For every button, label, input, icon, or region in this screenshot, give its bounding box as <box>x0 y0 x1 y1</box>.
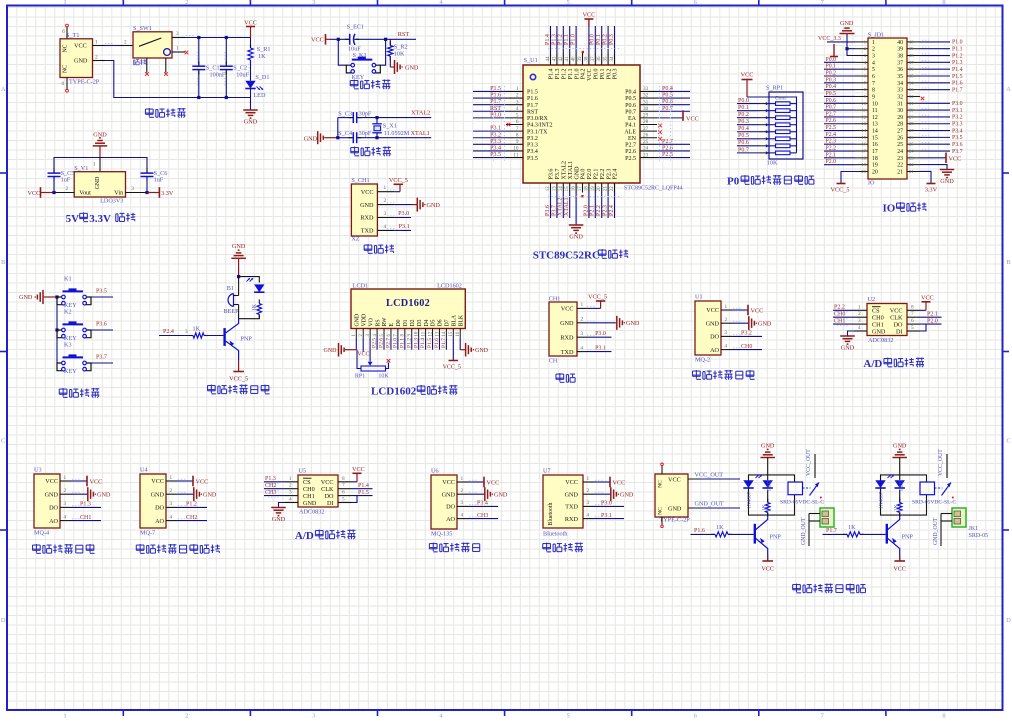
svg-text:P2.1: P2.1 <box>927 312 938 318</box>
wire relay loop <box>749 475 795 495</box>
svg-text:LCD1602: LCD1602 <box>371 386 417 398</box>
svg-text:S_EC1: S_EC1 <box>347 24 365 31</box>
svg-text:22: 22 <box>909 162 914 167</box>
svg-text:1: 1 <box>95 40 98 46</box>
svg-text:D: D <box>1006 617 1011 624</box>
svg-text:BLA: BLA <box>452 314 458 326</box>
svg-text:18: 18 <box>872 156 878 162</box>
svg-text:P2.7: P2.7 <box>826 111 837 117</box>
LDO pin 2 Vout <box>54 192 74 194</box>
svg-text:VCC_OUT: VCC_OUT <box>806 449 812 476</box>
svg-text:P3.2: P3.2 <box>741 331 752 337</box>
svg-text:VDD: VDD <box>361 314 367 327</box>
svg-text:6: 6 <box>62 29 65 35</box>
svg-text:P2.7: P2.7 <box>625 143 636 149</box>
svg-text:VCC: VCC <box>151 478 164 485</box>
switch S_SW1 <box>120 45 133 47</box>
svg-text:2: 2 <box>384 198 387 204</box>
resistor S_R2 10K <box>389 39 391 45</box>
svg-text:IO: IO <box>882 203 895 215</box>
U1 pin 39 P4.2 <box>582 53 584 65</box>
svg-text:BEEP: BEEP <box>224 308 240 315</box>
svg-text:P1.2: P1.2 <box>952 53 963 59</box>
svg-text:XTAL2: XTAL2 <box>558 197 564 216</box>
svg-text:MQ-2: MQ-2 <box>695 357 710 364</box>
svg-text:32: 32 <box>897 94 903 100</box>
svg-text:3: 3 <box>872 54 875 60</box>
svg-text:P1.7: P1.7 <box>826 528 837 534</box>
svg-text:P0.7: P0.7 <box>625 109 636 115</box>
svg-text:VCC: VCC <box>893 566 906 573</box>
svg-text:S_CH1: S_CH1 <box>351 177 369 184</box>
svg-text:GND: GND <box>626 320 640 327</box>
LED relay indicator <box>895 480 905 488</box>
svg-text:P0.2: P0.2 <box>603 34 609 45</box>
svg-text:4: 4 <box>581 345 584 351</box>
svg-text:12: 12 <box>428 331 433 336</box>
svg-text:1: 1 <box>63 0 66 6</box>
svg-text:U1: U1 <box>695 294 703 301</box>
svg-text:1K: 1K <box>252 303 258 311</box>
svg-text:P0.7: P0.7 <box>738 147 749 153</box>
ground GND U3 sideways <box>71 493 88 495</box>
U1 pin 35 P0.2 <box>607 53 609 65</box>
svg-text:3: 3 <box>587 500 590 506</box>
svg-text:TYPE-C-2P: TYPE-C-2P <box>69 79 100 86</box>
JD1 pin 9 <box>855 95 868 97</box>
svg-text:SRD-05VDC-SL-C: SRD-05VDC-SL-C <box>780 500 824 506</box>
RP1 resistor element 6 P0.5 <box>776 137 791 141</box>
svg-text:VCC_3.3: VCC_3.3 <box>818 36 841 42</box>
svg-text:GND: GND <box>97 492 111 499</box>
svg-text:P3.4: P3.4 <box>952 128 963 134</box>
svg-text:3: 3 <box>461 500 464 506</box>
svg-text:P2.7: P2.7 <box>386 338 392 348</box>
svg-text:P2.0: P2.0 <box>587 169 593 180</box>
wire U5 CH2 <box>264 488 285 490</box>
svg-text:P3.6: P3.6 <box>952 142 963 148</box>
JD1 pin 28 <box>907 123 920 125</box>
svg-text:NC: NC <box>63 65 69 73</box>
svg-text:19: 19 <box>591 186 596 192</box>
svg-text:4: 4 <box>725 343 728 349</box>
svg-text:D0: D0 <box>396 319 402 326</box>
svg-text:P2.0: P2.0 <box>583 205 589 216</box>
svg-text:VCC: VCC <box>921 294 934 301</box>
U1 pin 36 P0.1 <box>601 53 603 65</box>
svg-text:NC: NC <box>63 44 69 52</box>
svg-text:11.0592M: 11.0592M <box>384 130 410 137</box>
svg-text:P0.6: P0.6 <box>662 99 673 105</box>
svg-text:10: 10 <box>872 101 878 107</box>
RP1 resistor element 8 P0.7 <box>776 151 791 155</box>
svg-text:1: 1 <box>63 713 66 720</box>
svg-text:1K: 1K <box>193 325 201 332</box>
svg-text:4: 4 <box>289 497 292 503</box>
JD1 pin 17 <box>855 150 868 152</box>
svg-text:STC89C52RC_LQFP44: STC89C52RC_LQFP44 <box>624 186 683 192</box>
svg-text:TXD: TXD <box>361 228 374 235</box>
svg-text:GND: GND <box>427 202 441 209</box>
power VCC U4 <box>177 480 193 482</box>
svg-text:VCC: VCC <box>74 43 87 50</box>
svg-text:P3.7: P3.7 <box>952 149 963 155</box>
svg-text:35: 35 <box>604 56 609 62</box>
svg-text:P0.3: P0.3 <box>826 77 837 83</box>
svg-text:D4: D4 <box>424 319 430 326</box>
wire serial P3.1 <box>586 351 612 353</box>
svg-text:31: 31 <box>643 99 649 105</box>
wire U6 P3.4 <box>468 505 498 507</box>
svg-text:8: 8 <box>942 0 945 6</box>
svg-text:VCC: VCC <box>196 478 209 485</box>
svg-text:Bluetooth: Bluetooth <box>543 531 568 538</box>
svg-text:VCC: VCC <box>949 155 962 162</box>
svg-text:CH2: CH2 <box>265 483 276 489</box>
svg-text:6: 6 <box>872 74 875 80</box>
svg-text:P0.0: P0.0 <box>594 69 600 80</box>
svg-text:P0.5: P0.5 <box>738 133 749 139</box>
svg-text:CH1: CH1 <box>80 515 91 521</box>
U1 pin 10 P3.4 <box>506 150 523 152</box>
svg-text:VCC_5: VCC_5 <box>229 376 248 383</box>
svg-text:8: 8 <box>342 476 345 482</box>
svg-text:21: 21 <box>909 169 914 174</box>
svg-text:30: 30 <box>897 108 903 114</box>
svg-text:1: 1 <box>581 302 584 308</box>
svg-text:16: 16 <box>456 331 461 336</box>
svg-text:34: 34 <box>610 56 615 62</box>
svg-text:P2.2: P2.2 <box>826 146 837 152</box>
svg-text:P1.3: P1.3 <box>413 338 419 348</box>
JD1 pin 2 <box>855 48 868 50</box>
capacitor S_C6 1uF <box>141 172 154 174</box>
svg-text:A: A <box>1006 86 1011 93</box>
svg-text:4: 4 <box>384 224 387 230</box>
JD1 pin 37 <box>907 61 920 63</box>
svg-text:SRD-05: SRD-05 <box>969 533 989 539</box>
svg-text:VO: VO <box>368 318 374 326</box>
svg-text:33: 33 <box>897 88 903 94</box>
svg-text:1: 1 <box>587 476 590 482</box>
svg-text:CH1: CH1 <box>834 319 845 325</box>
svg-text:P1.6: P1.6 <box>490 93 501 99</box>
JD1 pin 20 <box>855 170 868 172</box>
svg-text:2: 2 <box>185 713 188 720</box>
svg-text:P2.2: P2.2 <box>600 169 606 180</box>
svg-text:7: 7 <box>342 483 345 489</box>
svg-text:P1.1: P1.1 <box>952 47 963 53</box>
svg-text:14: 14 <box>442 331 447 336</box>
svg-text:14: 14 <box>559 186 564 192</box>
diode D 1N4007 relay <box>743 480 753 488</box>
U1 pin 33 P0.4 <box>640 90 657 92</box>
svg-text:U2: U2 <box>868 296 876 303</box>
transistor PNP relay <box>754 524 756 544</box>
svg-text:SRD-05VDC-SL-C: SRD-05VDC-SL-C <box>912 500 956 506</box>
svg-text:1: 1 <box>725 304 728 310</box>
U1 pin 25 P2.7 <box>640 143 657 145</box>
svg-text:P2.4: P2.4 <box>826 132 837 138</box>
svg-text:P1.0: P1.0 <box>392 338 398 348</box>
svg-text:4: 4 <box>858 325 861 331</box>
svg-text:P2.3: P2.3 <box>606 169 612 180</box>
svg-text:KEY: KEY <box>64 368 77 375</box>
LDO pin 3 Vin <box>126 192 148 194</box>
svg-text:B: B <box>1006 259 1011 266</box>
svg-text:K2: K2 <box>64 309 72 316</box>
svg-text:MQ-135: MQ-135 <box>431 531 452 538</box>
wire U7 P3.1 <box>594 518 624 520</box>
wire ldo top rail <box>54 158 147 174</box>
svg-text:6: 6 <box>516 119 519 125</box>
svg-text:37: 37 <box>897 60 903 66</box>
svg-text:GND: GND <box>872 328 886 335</box>
caption dian-yuan-dian-lu <box>145 108 153 110</box>
svg-text:GND: GND <box>475 348 489 354</box>
svg-text:9: 9 <box>516 139 519 145</box>
svg-text:13: 13 <box>435 331 440 336</box>
svg-text:EA: EA <box>628 116 637 122</box>
svg-text:15: 15 <box>872 135 878 141</box>
svg-text:XZ: XZ <box>351 236 359 243</box>
svg-text:P0.3: P0.3 <box>609 34 615 45</box>
relay coil SRD-05VDC-SL-C <box>788 482 803 495</box>
svg-text:P4.2: P4.2 <box>581 69 587 80</box>
transistor Q PNP alarm <box>223 328 225 346</box>
svg-text:D6: D6 <box>438 319 444 326</box>
power VCC U5 <box>351 481 357 483</box>
svg-text:P1.4: P1.4 <box>549 69 555 80</box>
svg-text:RXD: RXD <box>560 334 574 341</box>
U1 pin 5 P3.0/RX <box>506 117 523 119</box>
svg-text:15: 15 <box>449 331 454 336</box>
JD1 pin 21 <box>907 170 920 172</box>
resistor 1K alarm <box>258 300 260 304</box>
U1 pin 27 ALE <box>640 130 657 132</box>
svg-text:VCC: VCC <box>442 479 455 486</box>
svg-text:U4: U4 <box>140 467 148 474</box>
svg-text:7: 7 <box>516 126 519 132</box>
svg-text:VCC_5: VCC_5 <box>831 187 850 194</box>
svg-text:5: 5 <box>566 713 569 720</box>
caption an-jian-dian-lu <box>59 388 67 390</box>
U1 pin 9 P3.3 <box>506 143 523 145</box>
U1 pin 38 VCC <box>588 53 590 65</box>
caption ji-dian-qi-kong-zhi-dian-lu <box>793 584 801 586</box>
svg-text:6: 6 <box>342 490 345 496</box>
svg-text:P2.4: P2.4 <box>163 329 174 335</box>
lcd LCD1602 box <box>351 289 465 329</box>
U1 pin 42 P1.2 <box>562 53 564 65</box>
svg-text:30: 30 <box>643 106 649 112</box>
wire VCC rail top <box>185 37 251 39</box>
svg-text:VCC: VCC <box>761 566 774 573</box>
RP1 resistor element 1 P0.0 <box>776 102 791 106</box>
svg-text:1: 1 <box>872 40 875 46</box>
svg-text:2: 2 <box>461 488 464 494</box>
JD1 pin 18 <box>855 157 868 159</box>
svg-text:27: 27 <box>643 126 649 132</box>
svg-text:11: 11 <box>862 108 867 113</box>
svg-text:37: 37 <box>909 60 914 65</box>
U1 pin 11 P3.5 <box>506 157 523 159</box>
svg-text:P3.6: P3.6 <box>96 322 107 328</box>
svg-text:28: 28 <box>643 119 649 125</box>
svg-text:P3.3: P3.3 <box>490 139 501 145</box>
svg-text:GND: GND <box>560 320 574 327</box>
U1 pin 37 P0.0 <box>594 53 596 65</box>
svg-text:GND: GND <box>203 492 217 499</box>
svg-text:1: 1 <box>176 46 179 52</box>
JD1 pin 12 <box>855 116 868 118</box>
svg-text:DO: DO <box>155 505 164 512</box>
svg-text:GND: GND <box>758 321 772 328</box>
svg-text:P1.7: P1.7 <box>490 99 501 105</box>
svg-text:P1.3: P1.3 <box>555 69 561 80</box>
svg-text:12: 12 <box>872 115 878 121</box>
svg-text:P2.5: P2.5 <box>372 338 378 348</box>
svg-text:P0.3: P0.3 <box>613 69 619 80</box>
U1 pin 21 P2.3 <box>607 183 609 193</box>
svg-text:32: 32 <box>643 93 649 99</box>
svg-text:P1.5: P1.5 <box>358 490 369 496</box>
wire U3 P1.3 <box>71 506 101 508</box>
svg-text:P2.3: P2.3 <box>826 139 837 145</box>
potentiometer RP1 10K lcd <box>369 338 371 362</box>
svg-text:1K: 1K <box>258 53 266 60</box>
svg-text:23: 23 <box>643 152 649 158</box>
svg-text:P0.0: P0.0 <box>738 98 749 104</box>
svg-text:D7: D7 <box>445 319 451 326</box>
svg-text:P4.3/INT2: P4.3/INT2 <box>527 123 553 129</box>
svg-text:P2.1: P2.1 <box>594 169 600 180</box>
power VCC_3.3 JD1 pin1 <box>827 41 855 43</box>
svg-text:CH0: CH0 <box>741 344 752 350</box>
JD1 pin 34 <box>907 82 920 84</box>
svg-text:18: 18 <box>861 155 866 160</box>
svg-text:30pF: 30pF <box>359 110 372 117</box>
svg-text:VCC: VCC <box>311 37 324 44</box>
svg-text:26: 26 <box>909 135 914 140</box>
svg-text:2: 2 <box>516 93 519 99</box>
JD1 pin 15 <box>855 136 868 138</box>
svg-text:P3.0: P3.0 <box>595 331 606 337</box>
power VCC_5 JD1 pin20 <box>841 172 855 184</box>
svg-text:XTAL1: XTAL1 <box>568 161 574 180</box>
RP1 resistor element 7 P0.6 <box>776 144 791 148</box>
svg-text:P3.5: P3.5 <box>952 135 963 141</box>
svg-text:P1.1: P1.1 <box>568 69 574 80</box>
svg-text:P2.0: P2.0 <box>927 319 938 325</box>
svg-text:20: 20 <box>872 169 878 175</box>
svg-text:15: 15 <box>861 135 866 140</box>
svg-text:VCC: VCC <box>45 478 58 485</box>
ground GND JD1 pins 2-3 <box>847 49 855 56</box>
wire U5 DO P1.5 <box>351 495 373 497</box>
svg-text:3: 3 <box>64 501 67 507</box>
svg-text:26: 26 <box>897 135 903 141</box>
U1 pin 13 P3.7 <box>556 183 558 193</box>
svg-text:P3.5: P3.5 <box>96 289 107 295</box>
svg-text:5: 5 <box>516 113 519 119</box>
wire lcd pin16 gnd right <box>459 338 461 350</box>
svg-text:VCC: VCC <box>583 12 596 19</box>
transistor PNP relay <box>886 524 888 544</box>
svg-text:P1.0: P1.0 <box>574 69 580 80</box>
JD1 pin 7 <box>855 82 868 84</box>
svg-text:GND: GND <box>360 202 374 209</box>
svg-text:U3: U3 <box>34 467 42 474</box>
svg-text:XTAL2: XTAL2 <box>411 110 430 117</box>
svg-text:GND: GND <box>244 119 258 126</box>
wire GND_OUT <box>688 507 700 509</box>
svg-text:P3.0: P3.0 <box>601 501 612 507</box>
JD1 pin 5 <box>855 68 868 70</box>
svg-text:1K: 1K <box>848 524 856 531</box>
svg-text:1: 1 <box>516 86 519 92</box>
wire U2 CH1 <box>833 323 854 325</box>
svg-text:P3.1: P3.1 <box>952 108 963 114</box>
svg-text:29: 29 <box>909 114 914 119</box>
dotted marks top pin bundle <box>548 48 620 50</box>
svg-text:Com: Com <box>775 96 786 102</box>
connector T1 TYPE-C-2P <box>60 39 93 78</box>
svg-text:D5: D5 <box>431 319 437 326</box>
JD1 pin 3 <box>855 55 868 57</box>
svg-text:2: 2 <box>95 55 98 61</box>
JD1 pin 24 <box>907 150 920 152</box>
U1 pin 6 P4.3/INT2 <box>506 124 523 126</box>
svg-text:12: 12 <box>546 186 551 192</box>
wire U7 P3.0 <box>594 505 624 507</box>
JD1 pin 11 <box>855 109 868 111</box>
caption jing-zhen-dian-lu <box>351 147 359 149</box>
svg-text:10: 10 <box>513 146 519 152</box>
svg-text:GND: GND <box>442 491 456 498</box>
svg-text:13: 13 <box>872 122 878 128</box>
power 3.3V <box>158 187 160 198</box>
power VCC JD1 pin23 <box>920 157 946 159</box>
svg-text:AO: AO <box>155 518 164 525</box>
JD1 pin 23 <box>907 157 920 159</box>
svg-text:GND: GND <box>706 320 720 327</box>
svg-text:28: 28 <box>909 121 914 126</box>
svg-text:2: 2 <box>185 0 188 6</box>
svg-text:P0.1: P0.1 <box>826 64 837 70</box>
capacitor S_C4 30pF <box>352 132 354 143</box>
svg-text:P2.1: P2.1 <box>826 152 837 158</box>
svg-text:3.3V: 3.3V <box>925 187 938 194</box>
svg-text:GND: GND <box>761 443 775 450</box>
svg-text:P1.5: P1.5 <box>527 90 538 96</box>
svg-text:P0.0: P0.0 <box>590 34 596 45</box>
svg-text:P3.4: P3.4 <box>527 149 538 155</box>
LED S_D1 <box>245 81 255 89</box>
svg-text:3: 3 <box>725 330 728 336</box>
svg-text:AO: AO <box>49 518 58 525</box>
capacitor S_C1 100nF <box>198 38 200 65</box>
U1 pin 14 XTAL2 <box>562 183 564 193</box>
LED alarm <box>254 284 264 292</box>
svg-text:4: 4 <box>64 514 67 520</box>
svg-text:P2.6: P2.6 <box>379 338 385 348</box>
ground GND U1 sideways <box>732 322 749 324</box>
svg-text:10uF: 10uF <box>236 71 249 78</box>
svg-text:LED: LED <box>253 92 266 99</box>
svg-text:P1.6: P1.6 <box>952 81 963 87</box>
svg-text:TXD: TXD <box>565 504 578 511</box>
